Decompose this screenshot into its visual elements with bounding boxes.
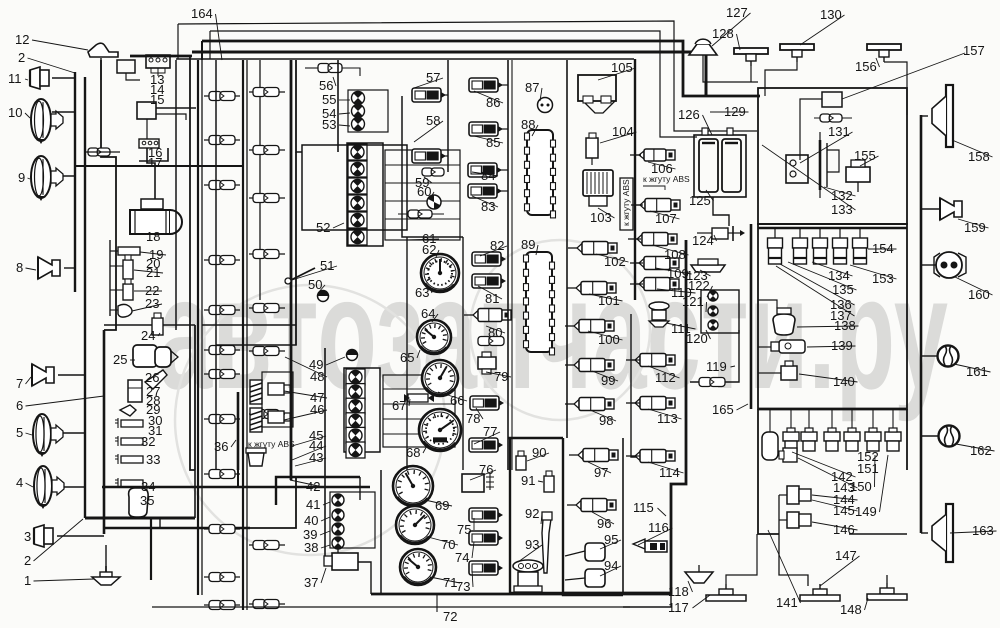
sensor 160	[934, 252, 966, 278]
warning lamp 38	[332, 537, 344, 549]
wire lamp9 feed	[52, 175, 75, 177]
frame 115 trunk thick	[563, 240, 686, 593]
valve 124	[712, 226, 745, 241]
svg-text:60: 60	[417, 184, 431, 199]
sensor 141b small	[783, 448, 797, 462]
svg-text:124: 124	[692, 233, 714, 248]
sensor 106	[630, 149, 675, 161]
wire lamp3 feed	[57, 535, 104, 537]
svg-text:91: 91	[521, 473, 535, 488]
connector inline	[204, 373, 240, 375]
svg-text:66: 66	[450, 393, 464, 408]
wire 57 stub	[441, 94, 448, 96]
svg-text:150: 150	[850, 479, 872, 494]
component 27 switch	[128, 380, 142, 402]
wire battery down	[713, 197, 729, 226]
sensor 46b	[268, 411, 284, 423]
gauge 64 voltmeter	[417, 320, 451, 354]
svg-text:4: 4	[16, 475, 23, 490]
svg-text:3: 3	[24, 529, 31, 544]
buzzer 111	[649, 302, 669, 327]
component 33 valve	[121, 456, 143, 463]
bus sensor row 1	[758, 227, 907, 230]
connector inline	[204, 139, 240, 141]
svg-text:165: 165	[712, 402, 734, 417]
wire 114 feed	[631, 455, 640, 457]
fuse 116	[633, 539, 667, 552]
sender lower 0	[769, 409, 771, 432]
vessel 94	[585, 569, 605, 587]
horn 8	[38, 257, 60, 279]
component 32 valve	[121, 438, 143, 445]
svg-text:42: 42	[306, 479, 320, 494]
headlamp 5	[33, 414, 63, 457]
connector inline	[249, 307, 285, 309]
warning lamp 121	[708, 306, 718, 316]
wire 159 link	[921, 208, 940, 210]
fuse rail 57-58	[447, 60, 449, 172]
sensor 146	[779, 512, 811, 528]
sensor 80	[464, 309, 511, 322]
wire 144 bus	[779, 495, 808, 586]
fuse 73	[469, 561, 503, 575]
wire 162 link	[921, 435, 938, 437]
panel box edge	[337, 60, 339, 152]
frame column 96-97 box 2	[508, 437, 563, 439]
wire mid link 1	[202, 324, 296, 326]
relay 15	[137, 102, 156, 119]
battery cell 2	[722, 139, 741, 192]
fuse 58	[412, 149, 446, 163]
lamp 3	[34, 525, 53, 547]
sensor 108	[628, 233, 677, 246]
wire 138 feed	[758, 300, 777, 308]
connector inline	[204, 95, 240, 97]
connector inline	[204, 259, 240, 261]
svg-text:58: 58	[426, 113, 440, 128]
wire 106-110 bus	[634, 59, 636, 300]
svg-text:138: 138	[834, 318, 856, 333]
sender 135	[793, 228, 808, 264]
gauge 66 fuel	[422, 360, 458, 396]
panel inner box	[302, 145, 407, 230]
wire 15-16 drop	[146, 119, 148, 139]
wire abs arrow	[643, 186, 665, 190]
lamp box 120-123	[701, 290, 739, 333]
wire 13 pins	[151, 68, 165, 73]
svg-text:87: 87	[525, 80, 539, 95]
connector inline	[249, 149, 285, 151]
connector strip 88	[525, 130, 556, 218]
terminal ladder 52	[385, 150, 460, 240]
trunk 165	[750, 224, 753, 409]
svg-text:130: 130	[820, 7, 842, 22]
svg-text:5: 5	[16, 425, 23, 440]
svg-text:160: 160	[968, 287, 990, 302]
connector inline	[204, 184, 240, 186]
wire cross bus 166	[75, 165, 243, 167]
svg-text:15: 15	[150, 92, 164, 107]
svg-text:64: 64	[421, 306, 435, 321]
svg-text:121: 121	[682, 294, 704, 309]
svg-text:128: 128	[712, 26, 734, 41]
sensor 107	[631, 199, 680, 212]
motor 103	[583, 170, 613, 206]
relay 131	[786, 155, 808, 183]
svg-text:82: 82	[490, 238, 504, 253]
wire 163 link	[921, 532, 928, 534]
svg-text:70: 70	[441, 537, 455, 552]
svg-text:114: 114	[659, 465, 680, 480]
svg-text:164: 164	[191, 6, 213, 21]
svg-text:116: 116	[648, 520, 669, 535]
wire fuse 83 stub	[498, 190, 508, 192]
svg-text:145: 145	[833, 503, 855, 518]
component 34 valve	[121, 480, 143, 487]
svg-text:103: 103	[590, 210, 612, 225]
fuse 81	[472, 274, 506, 288]
connector strip 89	[524, 252, 555, 355]
frame gauges 69-71 left	[380, 470, 382, 593]
lamp 11 fog lamp	[30, 67, 49, 89]
connector inline	[249, 91, 285, 93]
wire 124 link	[697, 232, 712, 234]
wire stair drop 4	[189, 56, 191, 330]
frame 90-93 box left	[510, 438, 563, 593]
frame 97 right edge	[622, 438, 624, 595]
wire right box bottom	[849, 533, 907, 535]
wire top bus 2	[210, 31, 697, 137]
ground 148	[867, 583, 907, 600]
svg-text:40: 40	[304, 513, 318, 528]
switch 59	[422, 168, 444, 176]
lamp column 53-55	[352, 92, 365, 105]
svg-text:126: 126	[678, 107, 700, 122]
wire 16 to 18	[147, 148, 155, 200]
wire 94 link	[565, 578, 585, 580]
mid frame	[216, 152, 296, 345]
screw 87	[538, 98, 553, 113]
svg-text:155: 155	[854, 148, 876, 163]
svg-text:85: 85	[486, 135, 500, 150]
warning lamp 122	[708, 291, 718, 301]
bus bottom thick	[371, 593, 671, 596]
svg-text:к жгуту ABS: к жгуту ABS	[621, 179, 631, 226]
wire top bus 3 thick	[202, 41, 760, 96]
sensor 90	[516, 456, 526, 470]
svg-text:2: 2	[18, 50, 25, 65]
svg-text:33: 33	[146, 452, 160, 467]
washer pump 93	[513, 560, 543, 592]
headlamp 9	[31, 156, 63, 201]
sensor 114	[626, 450, 675, 463]
svg-text:120: 120	[686, 331, 708, 346]
box 42 vertical	[359, 477, 361, 500]
stalk switch 26	[145, 370, 167, 389]
horn 159	[940, 198, 962, 220]
washer unit 157 box	[822, 92, 842, 107]
trunk 165b	[757, 409, 759, 412]
leader 157	[842, 53, 965, 99]
pump 92	[542, 519, 551, 573]
fuse 82	[472, 252, 506, 266]
svg-text:68: 68	[406, 445, 420, 460]
svg-text:73: 73	[456, 579, 470, 594]
ladder rung	[385, 200, 460, 202]
wire 58 stub	[441, 155, 448, 157]
svg-text:129: 129	[724, 104, 746, 119]
sender 137	[833, 228, 848, 264]
svg-text:54: 54	[322, 106, 336, 121]
sensor 100	[565, 320, 614, 333]
svg-text:139: 139	[831, 338, 853, 353]
fuse 83	[468, 184, 502, 198]
wire harness column 1	[197, 60, 199, 595]
wire fuse 85 stub	[499, 128, 508, 130]
svg-text:89: 89	[521, 237, 535, 252]
bus 36 thick	[237, 392, 240, 470]
svg-text:92: 92	[525, 506, 539, 521]
relay block 52	[347, 143, 383, 246]
box 6 right edge lower	[194, 470, 196, 518]
svg-text:75: 75	[457, 522, 471, 537]
svg-text:23: 23	[145, 296, 159, 311]
sensor 47b	[268, 383, 284, 395]
wire fuse 86 stub	[499, 84, 508, 86]
frame mid right	[631, 400, 642, 457]
wire 112 feed	[631, 359, 640, 361]
wire 95 link	[565, 551, 585, 556]
wiper 156	[867, 44, 901, 62]
svg-text:52: 52	[316, 220, 330, 235]
fuse near 131	[820, 114, 842, 122]
connector inline	[249, 253, 285, 255]
frame main left panel	[215, 60, 217, 345]
connector cup 44	[246, 448, 266, 466]
wire 131 drop	[800, 99, 822, 160]
sender lower 3	[831, 409, 833, 432]
svg-text:69: 69	[435, 498, 449, 513]
motor 155	[846, 160, 870, 192]
sensor 104	[586, 138, 598, 158]
wire stair drop 1	[177, 24, 179, 59]
svg-text:153: 153	[872, 271, 894, 286]
svg-text:11: 11	[8, 71, 22, 86]
sensor 140	[773, 361, 797, 380]
component 23	[118, 304, 132, 317]
sensor 144-145	[779, 486, 811, 504]
wire cross bus stub	[85, 151, 120, 153]
gauge 69	[393, 466, 433, 506]
wire top bus 4 thick	[192, 52, 706, 96]
svg-text:104: 104	[612, 124, 634, 139]
lamp 128	[734, 48, 768, 66]
hatch connector 47	[250, 380, 262, 404]
svg-text:67: 67	[392, 398, 406, 413]
connector inline	[249, 197, 285, 199]
svg-text:9: 9	[18, 170, 25, 185]
svg-text:32: 32	[141, 434, 155, 449]
svg-text:26: 26	[145, 370, 159, 385]
svg-text:161: 161	[966, 364, 988, 379]
svg-text:62: 62	[422, 242, 436, 257]
wire top bus 1	[178, 21, 757, 131]
wire harness column 2b	[246, 60, 248, 610]
sensor 110	[630, 278, 679, 291]
grommet 162	[939, 426, 960, 447]
connector inline	[249, 544, 285, 546]
svg-text:83: 83	[481, 199, 495, 214]
gauge 70 temp	[396, 506, 434, 544]
svg-text:76: 76	[479, 462, 493, 477]
panel box gauge frame	[402, 96, 463, 237]
speaker 158	[932, 85, 953, 147]
terminal ladder 46	[383, 375, 455, 447]
wire harness column 1b	[201, 60, 203, 595]
wire left trunk B	[84, 77, 86, 518]
svg-text:113: 113	[657, 411, 678, 426]
fuse 78	[470, 396, 504, 410]
component 24	[152, 318, 163, 335]
panel box 61	[296, 60, 302, 152]
connector pill mid	[398, 213, 444, 215]
frame center bottom 2	[511, 60, 513, 470]
sender 138	[853, 228, 868, 264]
wire ground1 stem	[105, 545, 107, 572]
wire bottom-left bus 2	[104, 527, 250, 530]
wire harness column 3	[259, 60, 261, 300]
component 30 valve	[121, 420, 143, 427]
svg-text:1: 1	[24, 573, 31, 588]
sensor 96	[567, 499, 616, 512]
connector inline	[204, 309, 240, 311]
svg-text:119: 119	[706, 359, 727, 374]
connector inline	[204, 576, 240, 578]
wiper 130	[780, 44, 814, 62]
svg-text:17: 17	[148, 155, 162, 170]
sensor 102	[568, 242, 617, 255]
speedometer 68	[419, 409, 461, 451]
svg-text:115: 115	[633, 500, 654, 515]
battery box 125	[694, 135, 746, 197]
ladder rung	[385, 182, 460, 184]
relay 14	[117, 60, 135, 73]
wire fuse 84 stub	[498, 169, 508, 171]
svg-text:49: 49	[309, 357, 323, 372]
svg-text:152: 152	[857, 449, 879, 464]
switch unit 13	[146, 55, 170, 68]
svg-text:37: 37	[304, 575, 318, 590]
wire 140 feed	[758, 372, 773, 374]
wire stair drop 3	[201, 41, 203, 60]
ladder rung	[383, 403, 455, 405]
wire 117 stem	[726, 534, 757, 584]
sender lower 1	[790, 409, 792, 432]
wire 148 stem	[886, 575, 888, 583]
bus left bottom long	[250, 477, 296, 528]
svg-text:133: 133	[831, 202, 853, 217]
sender lower 6	[892, 409, 894, 432]
svg-text:6: 6	[16, 398, 23, 413]
sensor 98	[565, 398, 614, 411]
sensor 99	[565, 359, 614, 372]
connector inline	[249, 603, 285, 605]
wire lamp5 feed	[61, 432, 85, 434]
svg-text:118: 118	[668, 584, 689, 599]
frame main left panel bottom	[215, 345, 217, 470]
bowl 138	[773, 308, 795, 335]
component 67	[408, 394, 428, 402]
wire 113 feed	[631, 402, 640, 404]
wire harness column 4b	[295, 60, 297, 345]
air horn 123	[691, 259, 725, 272]
connector inline	[204, 473, 240, 475]
bus 43 thick	[102, 486, 370, 488]
svg-text:134: 134	[828, 268, 850, 283]
svg-text:74: 74	[455, 550, 469, 565]
component 25 dual horn	[133, 345, 157, 367]
wire 130 stem	[765, 62, 797, 96]
warning lamp 120	[708, 320, 718, 330]
ground 1	[92, 566, 120, 585]
wire stair drop 2	[209, 31, 211, 59]
frame around gauge 64-66	[406, 237, 408, 470]
bus sensor row 2	[758, 408, 907, 411]
svg-text:55: 55	[322, 92, 336, 107]
wire 14 link	[126, 73, 140, 80]
box frame mid	[190, 330, 195, 470]
sensor 109	[630, 257, 679, 270]
svg-text:157: 157	[963, 43, 985, 58]
svg-text:72: 72	[443, 609, 457, 624]
box lighting switches	[104, 324, 195, 326]
svg-text:125: 125	[689, 193, 711, 208]
svg-text:90: 90	[532, 445, 546, 460]
wire left trunk A	[74, 72, 76, 292]
component 21 sensor	[123, 260, 133, 279]
ladder rung	[383, 433, 455, 435]
wire 37 drop	[358, 562, 371, 594]
lamp 12 marker light	[88, 43, 118, 57]
wire stair bottom-left	[150, 518, 152, 580]
fuse 85	[469, 122, 503, 136]
fuse block 16	[139, 139, 159, 148]
wire horn8 feed	[64, 267, 75, 269]
wire 160 link	[921, 264, 936, 266]
svg-text:101: 101	[598, 293, 620, 308]
fuse 84	[468, 163, 502, 177]
sender 134	[768, 228, 783, 264]
wire lamp10 feed	[52, 111, 75, 113]
fuse 86	[469, 78, 503, 92]
frame abs strip	[620, 178, 633, 230]
wire 119	[690, 330, 739, 382]
fuse 57	[412, 88, 446, 102]
wire 72 stem	[436, 594, 438, 612]
watermark text	[158, 243, 948, 422]
horn 7	[32, 364, 54, 386]
lamp cluster 38-41 box	[330, 492, 375, 548]
wire heavy stair 1	[84, 433, 86, 518]
wire 127 stem	[703, 55, 758, 82]
wire 17 bus	[139, 148, 168, 161]
box electronic unit	[758, 88, 907, 224]
component 19 fuse	[118, 247, 140, 255]
filter 139	[771, 340, 805, 353]
mid frame 2	[324, 348, 326, 560]
sensor 112	[626, 354, 675, 367]
wire harness column 2	[242, 60, 244, 610]
